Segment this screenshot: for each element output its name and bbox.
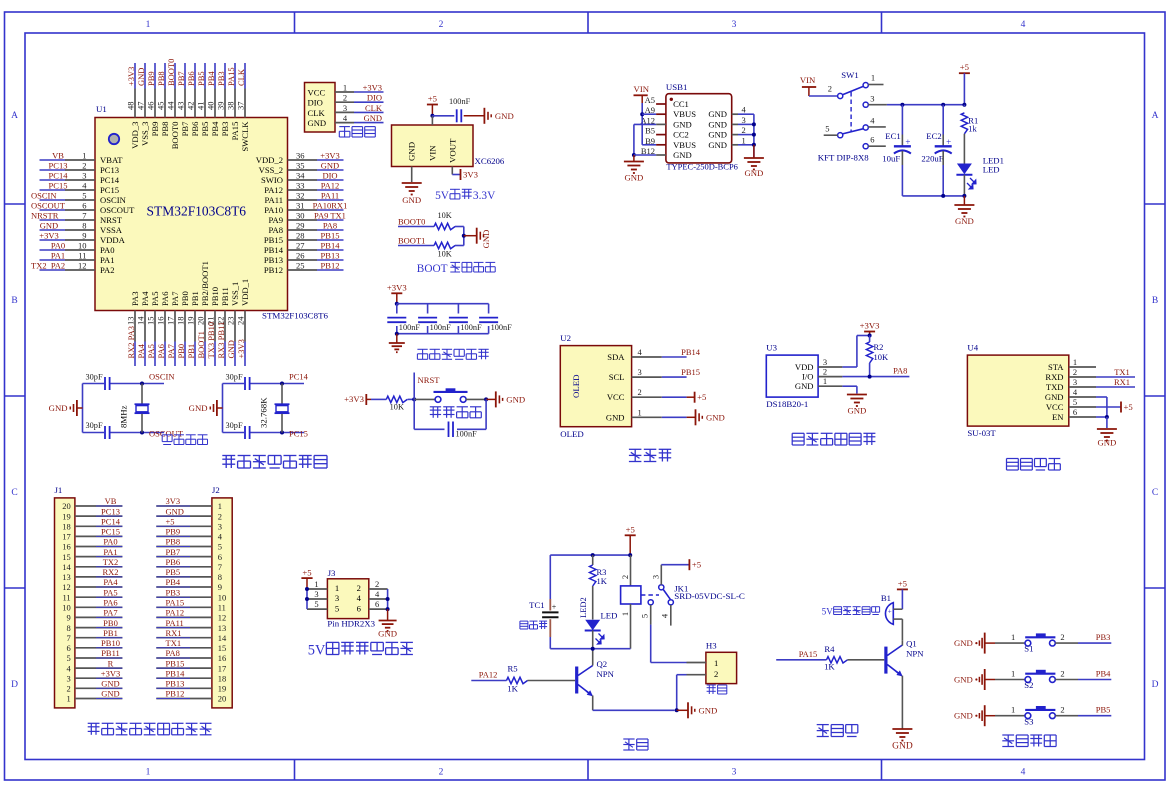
svg-text:5V: 5V bbox=[435, 190, 450, 202]
ground earth right bbox=[753, 145, 755, 158]
svg-text:1: 1 bbox=[1011, 669, 1015, 679]
svg-text:3: 3 bbox=[218, 522, 222, 532]
wire A12 B12 bus bbox=[633, 124, 635, 155]
svg-text:U2: U2 bbox=[560, 333, 571, 343]
svg-text:C: C bbox=[11, 488, 17, 498]
svg-text:PB1: PB1 bbox=[103, 628, 118, 638]
wire bottom loop left bbox=[413, 399, 415, 429]
node rail EC2 bbox=[941, 103, 945, 107]
svg-text:6: 6 bbox=[375, 599, 379, 609]
svg-text:5: 5 bbox=[335, 603, 339, 613]
svg-text:4: 4 bbox=[1021, 20, 1026, 30]
svg-text:32.768K: 32.768K bbox=[259, 397, 269, 428]
svg-text:2: 2 bbox=[439, 20, 444, 30]
svg-text:LED: LED bbox=[983, 165, 1000, 175]
svg-text:PA12: PA12 bbox=[479, 670, 498, 680]
push button S1 bbox=[1025, 640, 1031, 646]
U1 pin 1 VBAT wire bbox=[40, 159, 66, 161]
svg-text:PB8: PB8 bbox=[160, 122, 170, 137]
svg-text:PA8: PA8 bbox=[269, 225, 284, 235]
svg-text:19: 19 bbox=[218, 684, 227, 694]
svg-text:31: 31 bbox=[296, 201, 305, 211]
svg-text:+: + bbox=[888, 608, 892, 616]
svg-text:27: 27 bbox=[296, 241, 305, 251]
svg-text:C: C bbox=[1152, 488, 1158, 498]
svg-text:2: 2 bbox=[828, 84, 832, 94]
download port pin 4 wire bbox=[335, 122, 354, 124]
svg-text:1: 1 bbox=[1011, 632, 1015, 642]
U1 pin 26 PB13 wire bbox=[288, 259, 318, 261]
wire gnd to button S3 bbox=[985, 715, 995, 717]
U1 pin 30 PA9 wire bbox=[288, 219, 318, 221]
svg-text:+3V3: +3V3 bbox=[39, 231, 58, 241]
svg-text:PA2: PA2 bbox=[100, 265, 115, 275]
svg-text:48: 48 bbox=[126, 102, 136, 111]
svg-text:PA12: PA12 bbox=[166, 608, 185, 618]
svg-text:19: 19 bbox=[186, 317, 196, 326]
svg-text:XC6206: XC6206 bbox=[475, 156, 505, 166]
capacitor C4 100nF bbox=[488, 304, 490, 314]
U1 pin 48 VDD_3 wire bbox=[134, 63, 136, 89]
svg-text:PA12: PA12 bbox=[321, 181, 340, 191]
svg-text:SU-03T: SU-03T bbox=[967, 428, 996, 438]
svg-text:SCL: SCL bbox=[609, 372, 625, 382]
svg-text:9: 9 bbox=[218, 582, 222, 592]
svg-text:STM32F103C8T6: STM32F103C8T6 bbox=[262, 311, 329, 321]
svg-text:39: 39 bbox=[216, 102, 226, 111]
IC U2 OLED body bbox=[560, 346, 631, 427]
svg-text:RX1: RX1 bbox=[166, 628, 182, 638]
wire PA15 to R4 bbox=[776, 659, 826, 661]
resistor R4 1K bbox=[827, 657, 848, 663]
svg-text:13: 13 bbox=[62, 572, 71, 582]
svg-text:VCC: VCC bbox=[1046, 402, 1064, 412]
junction pin3 bbox=[305, 597, 309, 601]
U3 pin 3 VDD wire bbox=[818, 366, 842, 368]
wire right gnd bus bbox=[753, 114, 755, 158]
wire GND pin4 bbox=[1106, 397, 1108, 417]
svg-text:PB9: PB9 bbox=[150, 122, 160, 137]
svg-text:PC15: PC15 bbox=[100, 185, 119, 195]
svg-text:2: 2 bbox=[620, 575, 630, 579]
svg-text:GND: GND bbox=[606, 412, 625, 422]
svg-text:NPN: NPN bbox=[906, 649, 924, 659]
svg-text:PB4: PB4 bbox=[206, 71, 216, 86]
wire to gnd bbox=[486, 398, 496, 400]
capacitor C1 100nF bbox=[396, 304, 398, 314]
SW1 pin1 contact bbox=[863, 83, 868, 88]
svg-text:U3: U3 bbox=[766, 343, 777, 353]
power +5 port relay bbox=[688, 559, 690, 570]
wire gnd to button S1 bbox=[985, 642, 995, 644]
junction pin4 bbox=[386, 597, 390, 601]
svg-text:PA9: PA9 bbox=[269, 215, 284, 225]
power 3V3 port bbox=[460, 169, 462, 180]
junction B12 bbox=[632, 153, 636, 157]
svg-text:1: 1 bbox=[335, 583, 339, 593]
svg-text:PA11: PA11 bbox=[265, 195, 283, 205]
U1 pin 23 VSS_1 wire bbox=[234, 311, 236, 342]
U1 pin 29 PA8 wire bbox=[288, 229, 318, 231]
capacitor 100nF reset bbox=[448, 422, 450, 438]
svg-text:6: 6 bbox=[357, 603, 362, 613]
svg-text:PB11: PB11 bbox=[101, 648, 120, 658]
power +3V3 port bbox=[864, 331, 875, 333]
svg-text:15: 15 bbox=[146, 317, 156, 326]
wire bottom rail heater bbox=[550, 648, 630, 650]
resistor 10K upper bbox=[434, 223, 455, 229]
svg-text:VBUS: VBUS bbox=[673, 140, 696, 150]
svg-text:2: 2 bbox=[1073, 367, 1077, 377]
capacitor EC2 220uF bbox=[942, 105, 944, 135]
svg-text:SWIO: SWIO bbox=[261, 175, 283, 185]
svg-text:28: 28 bbox=[296, 231, 305, 241]
push button SW reset bbox=[435, 397, 441, 403]
svg-text:20: 20 bbox=[218, 694, 227, 704]
wire node to button bbox=[414, 398, 435, 400]
svg-text:1: 1 bbox=[714, 658, 718, 668]
ground earth bbox=[402, 182, 422, 184]
H3 pin1 stub bbox=[687, 662, 706, 664]
J3 left pin 1 wire bbox=[307, 588, 327, 590]
svg-text:VCC: VCC bbox=[607, 392, 625, 402]
svg-text:46: 46 bbox=[146, 102, 156, 111]
SW1 blade 5-4 bbox=[843, 129, 864, 134]
svg-text:OSCOUT: OSCOUT bbox=[31, 201, 66, 211]
svg-text:SW1: SW1 bbox=[841, 70, 858, 80]
svg-text:PA10RX1: PA10RX1 bbox=[313, 201, 348, 211]
svg-text:GND: GND bbox=[795, 381, 814, 391]
U1 pin 20 PB2/BOOT1 wire bbox=[204, 311, 206, 342]
svg-text:PA8: PA8 bbox=[166, 648, 180, 658]
svg-text:3: 3 bbox=[314, 589, 318, 599]
svg-text:PB15: PB15 bbox=[681, 367, 700, 377]
capacitor 30pF (bottom) bbox=[223, 432, 245, 434]
USB1 pin A5 CC1 stub bbox=[656, 103, 666, 105]
svg-text:3V3: 3V3 bbox=[463, 170, 478, 180]
svg-text:PB13: PB13 bbox=[321, 251, 340, 261]
U1 pin 43 PB7 wire bbox=[184, 63, 186, 89]
download port pin 1 wire bbox=[335, 91, 354, 93]
svg-text:PC14: PC14 bbox=[289, 372, 309, 382]
svg-text:TX2 PA2: TX2 PA2 bbox=[31, 261, 65, 271]
svg-text:VIN: VIN bbox=[634, 84, 650, 94]
svg-text:3: 3 bbox=[1073, 377, 1077, 387]
svg-text:TC1: TC1 bbox=[529, 600, 544, 610]
svg-text:OLED: OLED bbox=[560, 429, 583, 439]
svg-text:+5: +5 bbox=[960, 62, 969, 72]
svg-text:SDA: SDA bbox=[607, 352, 625, 362]
svg-text:+5: +5 bbox=[428, 94, 437, 104]
svg-text:PA15: PA15 bbox=[226, 67, 236, 86]
svg-text:19: 19 bbox=[62, 511, 71, 521]
wire pin1 stub bbox=[868, 84, 883, 86]
svg-text:2: 2 bbox=[439, 768, 444, 778]
svg-text:VSSA: VSSA bbox=[100, 225, 123, 235]
junction bbox=[752, 122, 756, 126]
label paizhen bbox=[90, 723, 92, 735]
svg-text:OSCIN: OSCIN bbox=[149, 372, 175, 382]
resistor R1 1k bbox=[963, 105, 965, 106]
U1 pin 19 PB1 wire bbox=[194, 311, 196, 342]
power +5 port bbox=[1120, 402, 1122, 413]
U1 pin 45 PB8 wire bbox=[164, 63, 166, 89]
U1 pin 27 PB14 wire bbox=[288, 249, 318, 251]
svg-text:VDD_2: VDD_2 bbox=[256, 155, 283, 165]
U4 pin 6 EN wire bbox=[1069, 416, 1096, 418]
svg-text:8: 8 bbox=[218, 572, 222, 582]
U4 pin 3 TXD wire bbox=[1069, 386, 1096, 388]
svg-text:6: 6 bbox=[82, 201, 86, 211]
svg-text:VDD: VDD bbox=[795, 362, 814, 372]
wire PA12 to R5 bbox=[471, 680, 506, 682]
wire buzzer bottom terminal bbox=[893, 618, 902, 620]
U1 pin 10 PA0 wire bbox=[40, 249, 66, 251]
ground (bar style) bbox=[495, 391, 497, 407]
svg-text:+5: +5 bbox=[692, 560, 701, 570]
svg-text:PB14: PB14 bbox=[264, 245, 284, 255]
resistor 10K bbox=[386, 396, 407, 402]
svg-text:+3V3: +3V3 bbox=[344, 394, 364, 404]
svg-text:PB12: PB12 bbox=[264, 265, 283, 275]
SW1 pin3 contact bbox=[863, 102, 868, 107]
svg-text:GND: GND bbox=[101, 679, 119, 689]
svg-text:PB15: PB15 bbox=[321, 231, 340, 241]
svg-text:S3: S3 bbox=[1024, 716, 1033, 726]
svg-text:NPN: NPN bbox=[597, 669, 615, 679]
IC U1 STM32F103C8T6 body bbox=[95, 118, 288, 311]
svg-text:12: 12 bbox=[62, 582, 71, 592]
svg-text:+5: +5 bbox=[166, 517, 175, 527]
svg-text:40: 40 bbox=[206, 102, 216, 111]
svg-text:220uF: 220uF bbox=[921, 153, 943, 163]
svg-text:14: 14 bbox=[62, 562, 71, 572]
svg-text:5: 5 bbox=[218, 542, 222, 552]
U1 pin 5 OSCIN wire bbox=[40, 199, 66, 201]
svg-text:+5: +5 bbox=[626, 524, 635, 534]
svg-text:PC13: PC13 bbox=[49, 161, 68, 171]
crystal 8MHz bbox=[141, 384, 143, 404]
SW1 ganged dashed link bbox=[850, 92, 852, 131]
download port pin 3 wire bbox=[335, 111, 354, 113]
svg-text:20: 20 bbox=[196, 317, 206, 326]
wire to earth bbox=[396, 334, 398, 343]
transistor Q1 NPN bbox=[884, 647, 887, 674]
svg-text:5: 5 bbox=[640, 614, 650, 618]
svg-text:1: 1 bbox=[871, 73, 875, 83]
svg-text:VB: VB bbox=[105, 496, 117, 506]
svg-text:KFT DIP-8X8: KFT DIP-8X8 bbox=[818, 153, 870, 163]
svg-text:18: 18 bbox=[62, 522, 71, 532]
svg-text:+3V3: +3V3 bbox=[236, 339, 246, 358]
SW1 pin4 contact bbox=[863, 125, 868, 130]
power +5 port bbox=[959, 72, 970, 74]
svg-text:+5: +5 bbox=[697, 392, 706, 402]
svg-text:2: 2 bbox=[66, 684, 70, 694]
svg-text:GND: GND bbox=[955, 216, 974, 226]
svg-text:VSS_2: VSS_2 bbox=[259, 165, 283, 175]
svg-text:GND: GND bbox=[495, 111, 514, 121]
svg-text:45: 45 bbox=[156, 102, 166, 111]
svg-text:PA3: PA3 bbox=[130, 292, 140, 307]
wire emitter down bbox=[592, 696, 594, 711]
svg-text:3: 3 bbox=[82, 171, 86, 181]
svg-text:PA1: PA1 bbox=[51, 251, 65, 261]
svg-text:1: 1 bbox=[1073, 357, 1077, 367]
svg-text:100nF: 100nF bbox=[449, 97, 471, 106]
svg-text:PB9: PB9 bbox=[166, 527, 181, 537]
svg-text:6: 6 bbox=[870, 135, 874, 145]
svg-text:PB4: PB4 bbox=[210, 121, 220, 137]
svg-text:A: A bbox=[1152, 111, 1159, 121]
svg-text:2: 2 bbox=[742, 125, 746, 135]
ground (bar style) bbox=[483, 108, 485, 124]
ground earth bbox=[1097, 428, 1117, 430]
LED1 bbox=[957, 164, 972, 175]
U1 pin 3 PC14 wire bbox=[40, 179, 66, 181]
junction pin1 bbox=[305, 587, 309, 591]
download port pin 2 wire bbox=[335, 101, 354, 103]
svg-text:PA10: PA10 bbox=[264, 205, 283, 215]
wire bottom rail bbox=[902, 195, 964, 197]
connector J1 body bbox=[55, 498, 75, 708]
svg-text:PB0: PB0 bbox=[103, 618, 118, 628]
svg-text:BOOT: BOOT bbox=[417, 263, 448, 275]
relay pin4 contact bbox=[668, 600, 673, 605]
svg-text:PB10: PB10 bbox=[210, 287, 220, 306]
svg-text:PB15: PB15 bbox=[264, 235, 283, 245]
svg-text:GND: GND bbox=[189, 403, 208, 413]
svg-text:9: 9 bbox=[82, 231, 86, 241]
svg-text:PB3: PB3 bbox=[166, 587, 181, 597]
svg-text:2: 2 bbox=[343, 93, 347, 103]
svg-text:GND: GND bbox=[954, 638, 973, 648]
relay JK1 coil bbox=[630, 555, 632, 586]
svg-text:OSCIN: OSCIN bbox=[100, 195, 127, 205]
svg-text:GND: GND bbox=[40, 221, 58, 231]
svg-text:PC15: PC15 bbox=[49, 181, 68, 191]
svg-text:26: 26 bbox=[296, 251, 305, 261]
svg-text:2: 2 bbox=[823, 367, 827, 377]
svg-text:GND: GND bbox=[49, 403, 68, 413]
svg-text:5: 5 bbox=[314, 599, 318, 609]
svg-text:PC13: PC13 bbox=[100, 165, 119, 175]
svg-text:PA15: PA15 bbox=[799, 649, 818, 659]
svg-text:DS18B20-1: DS18B20-1 bbox=[766, 399, 808, 409]
svg-text:1: 1 bbox=[218, 501, 222, 511]
svg-text:1k: 1k bbox=[968, 124, 977, 134]
svg-text:16: 16 bbox=[62, 542, 71, 552]
U1 pin 15 PA5 wire bbox=[154, 311, 156, 342]
U1 pin 6 OSCOUT wire bbox=[40, 209, 66, 211]
svg-text:PB7: PB7 bbox=[180, 121, 190, 137]
capacitor 30pF (bottom) bbox=[83, 432, 105, 434]
svg-text:VDD_3: VDD_3 bbox=[130, 122, 140, 149]
svg-text:CLK: CLK bbox=[236, 68, 246, 86]
svg-text:VOUT: VOUT bbox=[447, 138, 457, 163]
svg-text:7: 7 bbox=[82, 211, 86, 221]
label yuyin shibie bbox=[1007, 458, 1019, 460]
ground (bar style rotated) bbox=[476, 228, 478, 244]
wire button to net PB4 bbox=[1055, 679, 1078, 681]
svg-text:CC2: CC2 bbox=[673, 130, 689, 140]
svg-text:18: 18 bbox=[218, 673, 227, 683]
svg-text:S1: S1 bbox=[1024, 644, 1033, 654]
svg-text:17: 17 bbox=[166, 317, 176, 326]
SW1 pin2 contact bbox=[838, 93, 843, 98]
svg-text:7: 7 bbox=[66, 633, 70, 643]
connector H3 body bbox=[706, 652, 737, 683]
label danpianji zuixiao xitong bbox=[225, 456, 227, 469]
svg-text:30pF: 30pF bbox=[226, 421, 243, 430]
svg-text:TX3 PB10: TX3 PB10 bbox=[206, 322, 216, 359]
wire R4 to base bbox=[848, 659, 885, 661]
svg-text:9: 9 bbox=[66, 613, 70, 623]
svg-text:PA6: PA6 bbox=[160, 291, 170, 306]
svg-text:GND: GND bbox=[1045, 392, 1064, 402]
wire pin4 stub bbox=[868, 126, 886, 128]
J3 right pin 2 wire bbox=[369, 588, 388, 590]
U1 pin 44 BOOT0 wire bbox=[174, 63, 176, 89]
junction H3 gnd bbox=[675, 708, 679, 712]
svg-text:PA6: PA6 bbox=[156, 344, 166, 358]
wire button to node2 bbox=[466, 398, 486, 400]
junction bbox=[752, 143, 756, 147]
SW1 blade 2-1 bbox=[843, 86, 864, 95]
svg-text:3: 3 bbox=[742, 115, 746, 125]
junction coil top bbox=[628, 553, 632, 557]
wire pin3 to +5 bbox=[661, 564, 689, 566]
svg-text:100nF: 100nF bbox=[399, 323, 421, 332]
svg-text:100nF: 100nF bbox=[430, 323, 452, 332]
svg-text:RX3 PB11: RX3 PB11 bbox=[216, 322, 226, 359]
svg-text:PA0: PA0 bbox=[100, 245, 115, 255]
U2 pin 3 SCL wire bbox=[632, 376, 662, 378]
svg-text:GND: GND bbox=[226, 340, 236, 358]
svg-text:10K: 10K bbox=[437, 250, 451, 259]
svg-text:LED2: LED2 bbox=[578, 597, 588, 618]
svg-text:PB1: PB1 bbox=[190, 291, 200, 306]
U3 pin 1 GND wire bbox=[818, 385, 842, 387]
svg-text:VDDA: VDDA bbox=[100, 235, 126, 245]
ground earth small bbox=[389, 342, 405, 344]
wire bottom loop right bbox=[457, 428, 486, 430]
svg-text:GND: GND bbox=[1097, 438, 1116, 448]
U1 pin 18 PB0 wire bbox=[184, 311, 186, 342]
svg-text:CC1: CC1 bbox=[673, 99, 689, 109]
wire top rail bbox=[550, 554, 630, 556]
svg-text:3: 3 bbox=[343, 103, 347, 113]
U1 pin 24 VDD_1 wire bbox=[244, 311, 246, 342]
svg-text:6: 6 bbox=[66, 643, 70, 653]
svg-text:B: B bbox=[11, 296, 17, 306]
connector download port body bbox=[305, 83, 336, 133]
svg-text:6: 6 bbox=[218, 552, 222, 562]
wire to junction bbox=[463, 227, 465, 236]
svg-text:GND: GND bbox=[364, 113, 382, 123]
svg-text:GND: GND bbox=[847, 406, 866, 416]
svg-text:PA5: PA5 bbox=[150, 292, 160, 307]
svg-text:18: 18 bbox=[176, 317, 186, 326]
svg-text:PA0: PA0 bbox=[103, 537, 117, 547]
label xianshiping bbox=[629, 448, 642, 450]
svg-text:30pF: 30pF bbox=[86, 373, 103, 382]
svg-text:PB2/BOOT1: PB2/BOOT1 bbox=[200, 261, 210, 306]
svg-text:20: 20 bbox=[62, 501, 71, 511]
svg-text:5: 5 bbox=[82, 191, 86, 201]
svg-text:14: 14 bbox=[218, 633, 227, 643]
svg-text:R5: R5 bbox=[508, 664, 518, 674]
